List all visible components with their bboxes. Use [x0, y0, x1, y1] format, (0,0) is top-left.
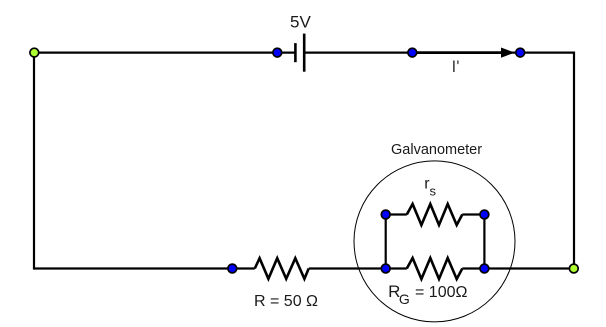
node blue top after battery: [408, 48, 417, 57]
wire shunt branch top left: [386, 213, 407, 215]
node blue shunt bottom-right: [480, 264, 489, 273]
svg-text:G: G: [399, 291, 410, 307]
node blue top after arrow: [516, 48, 525, 57]
svg-text:I': I': [452, 57, 460, 76]
wire top-right horizontal: [305, 51, 574, 53]
resistor R1 zigzag: [255, 258, 309, 279]
svg-text:5V: 5V: [290, 13, 311, 32]
wire bottom middle: [309, 267, 407, 269]
galvanometer circle: [354, 161, 515, 322]
svg-text:= 100Ω: = 100Ω: [415, 284, 467, 301]
wire bottom right: [462, 267, 574, 269]
node yellow bottom-right: [569, 264, 578, 273]
wire shunt branch top right: [462, 213, 484, 215]
node blue shunt top-right: [480, 210, 489, 219]
wire shunt branch left vertical: [385, 215, 387, 269]
wire top-left horizontal: [34, 51, 295, 53]
node blue bottom before R: [228, 264, 237, 273]
resistor rs zigzag: [407, 204, 463, 225]
current arrow I': [412, 51, 502, 54]
svg-text:s: s: [430, 184, 437, 199]
node blue shunt bottom-left: [381, 264, 390, 273]
node blue shunt top-left: [381, 210, 390, 219]
wire bottom horizontal: [34, 267, 255, 269]
node blue top before battery: [273, 48, 282, 57]
wire shunt branch right vertical: [483, 215, 485, 269]
svg-text:Galvanometer: Galvanometer: [391, 142, 482, 158]
wire right vertical: [573, 52, 575, 270]
battery V1 positive plate: [303, 34, 306, 72]
svg-text:R = 50 Ω: R = 50 Ω: [254, 293, 318, 310]
node yellow top-left: [30, 48, 39, 57]
battery V1 negative plate: [294, 43, 297, 62]
resistor RG zigzag: [407, 258, 463, 279]
wire left vertical: [33, 52, 35, 270]
